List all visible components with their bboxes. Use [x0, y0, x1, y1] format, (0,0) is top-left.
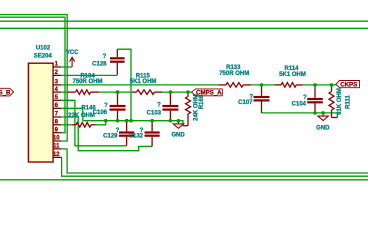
label R114 [284, 66, 299, 72]
svg-text:C103: C103 [147, 110, 162, 116]
wire horizontal bus B [0, 27, 368, 29]
label C132 [129, 134, 144, 140]
label R146 [81, 105, 96, 111]
label C107 [238, 100, 253, 106]
label R133 [226, 65, 241, 71]
resistor R115 [132, 90, 162, 95]
svg-text:C128: C128 [92, 61, 107, 67]
svg-text:CMPS_B: CMPS_B [0, 90, 11, 97]
pin 10 [53, 136, 61, 142]
pin 6 [53, 103, 61, 109]
svg-text:12: 12 [53, 152, 60, 158]
pin 5 [53, 95, 61, 101]
wire pin8 to R146 [61, 124, 71, 126]
capacitor C132 [145, 121, 160, 147]
net label CKPS [336, 81, 360, 89]
resistor R114 [275, 83, 304, 88]
ground symbol right [318, 113, 328, 121]
resistor R168 [183, 92, 191, 126]
wire pin4 to R134 [61, 91, 68, 93]
svg-text:750R OHM: 750R OHM [219, 71, 249, 77]
svg-text:22K OHM: 22K OHM [68, 113, 95, 119]
svg-text:C107: C107 [238, 100, 253, 106]
wire pin6 down [61, 108, 83, 120]
pin 9 [53, 127, 61, 133]
label C128 [92, 61, 107, 67]
wire pin5 to C129 bottom [61, 100, 126, 146]
wire horizontal bus A [0, 20, 368, 22]
wire pin2 to C128 [61, 74, 117, 76]
label C103 [147, 110, 162, 116]
svg-text:750R OHM: 750R OHM [72, 79, 102, 85]
svg-text:R146: R146 [81, 105, 96, 111]
wire R114 to CKPS [303, 84, 336, 86]
svg-text:5K1 OHM: 5K1 OHM [130, 79, 157, 85]
pin 8 [53, 120, 61, 126]
svg-text:11: 11 [53, 144, 60, 150]
label GND right [316, 125, 330, 131]
wire C128 top to ground rail [117, 49, 131, 121]
op-amp U102 body [28, 63, 53, 162]
power VCC symbol [70, 57, 75, 67]
wire bottom bus [0, 179, 368, 181]
wire pin12 bottom [61, 157, 368, 176]
pin 2 [53, 70, 61, 76]
wire net pin10 top-left [0, 15, 67, 142]
capacitor C128 [110, 49, 125, 75]
label R134 value 750R OHM [72, 79, 102, 85]
wire R134 to R115 [99, 91, 132, 93]
label C103 value ? [157, 103, 161, 109]
resistor R111 [329, 85, 337, 118]
wire net pin9 top-left [0, 17, 65, 133]
wire pin3 net left [61, 84, 218, 86]
label R133 value 750R OHM [219, 71, 249, 77]
wire C107 bottom rail [262, 113, 338, 118]
label R168 value 24K OHM [194, 94, 200, 121]
label C129 value ? [116, 128, 120, 134]
label C104 [292, 101, 307, 107]
capacitor C106 [110, 92, 126, 121]
wire R133 to C107 node [251, 84, 274, 86]
svg-text:?: ? [103, 54, 107, 60]
svg-text:CKPS: CKPS [340, 82, 357, 89]
wire pin1 to VCC [61, 66, 72, 68]
svg-text:C104: C104 [292, 101, 307, 107]
svg-text:VCC: VCC [66, 50, 79, 56]
svg-text:?: ? [303, 95, 307, 101]
label GND mid [171, 132, 185, 138]
capacitor C104 [307, 85, 323, 113]
resistor R146 [72, 123, 96, 128]
pin 1 [53, 62, 61, 68]
svg-text:?: ? [157, 103, 161, 109]
label U102 [36, 45, 51, 51]
label R115 value 5K1 OHM [130, 79, 157, 85]
label C107 value ? [249, 94, 253, 100]
wire pin7 to C132 bottom [61, 117, 152, 151]
net label CMPS_A [192, 89, 223, 97]
svg-text:10: 10 [53, 136, 60, 142]
label C132 value ? [140, 128, 144, 134]
pin 12 [53, 152, 61, 158]
svg-text:5K1 OHM: 5K1 OHM [279, 72, 306, 78]
svg-text:CMPS_A: CMPS_A [196, 90, 222, 97]
pin 3 [53, 80, 61, 86]
pin 11 [53, 144, 61, 150]
label C128 value ? [103, 54, 107, 60]
label R111 [346, 94, 352, 108]
label R111 value 91K OHM [337, 88, 343, 115]
ground symbol mid [173, 121, 183, 129]
svg-text:?: ? [104, 103, 108, 109]
svg-text:GND: GND [316, 125, 330, 131]
label R114 value 5K1 OHM [279, 72, 306, 78]
svg-text:U102: U102 [36, 45, 51, 51]
label C104 value ? [303, 95, 307, 101]
label R146 value 22K OHM [68, 113, 95, 119]
wire R146 to ground rail [96, 121, 106, 125]
capacitor C129 [119, 121, 134, 146]
pin 7 [53, 112, 61, 118]
svg-text:91K OHM: 91K OHM [337, 88, 343, 115]
net label CMPS_B [0, 88, 14, 96]
svg-text:GND: GND [171, 132, 185, 138]
resistor R134 [68, 90, 99, 95]
pin 4 [53, 87, 61, 93]
label R168 [199, 94, 205, 109]
wire ground rail [83, 121, 183, 126]
label R115 [136, 73, 151, 79]
junction dots [104, 83, 333, 122]
label C106 [93, 110, 108, 116]
label R134 [80, 73, 95, 79]
label C129 [103, 134, 118, 140]
label VCC [66, 50, 79, 56]
wire pin11 bottom [61, 149, 368, 173]
capacitor C107 [254, 85, 270, 113]
capacitor C103 [162, 92, 178, 121]
svg-text:R111: R111 [346, 94, 352, 108]
resistor R133 [219, 83, 252, 88]
svg-text:C129: C129 [103, 134, 118, 140]
svg-text:SE204: SE204 [34, 53, 53, 59]
svg-text:C132: C132 [129, 134, 144, 140]
label SE204 [34, 53, 53, 59]
label C106 value ? [104, 103, 108, 109]
wire R115 to CMPS_A [162, 91, 192, 93]
